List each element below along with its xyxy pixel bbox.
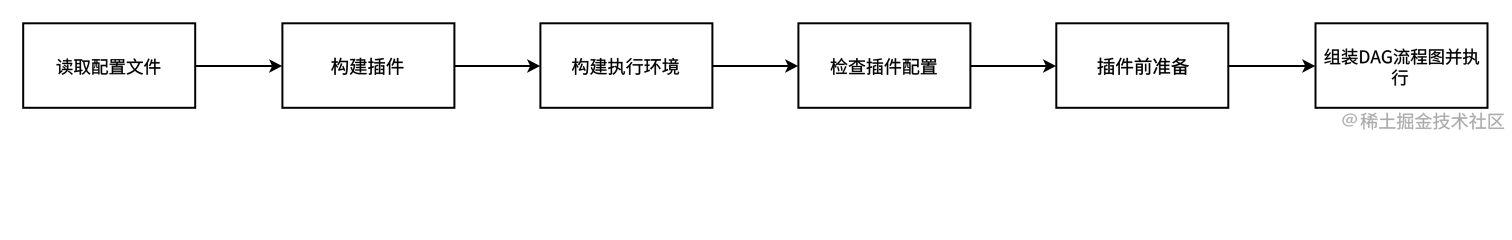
- process box 3: 构建执行环境: [540, 23, 712, 108]
- arrow 3: box 3 to box 4: [713, 65, 789, 67]
- label: 读取配置文件: [57, 58, 161, 74]
- process box 6: 组装DAG流程图并执行: [1316, 23, 1488, 108]
- arrowhead 1: [269, 59, 282, 73]
- process box 4: 检查插件配置: [798, 23, 970, 108]
- arrow 1: box 1 to box 2: [196, 65, 273, 67]
- label line 1: 组装DAG流程图并执: [1324, 49, 1479, 65]
- arrowhead 4: [1043, 59, 1056, 73]
- process box 2: 构建插件: [282, 23, 454, 108]
- label: 插件前准备: [1098, 58, 1189, 75]
- watermark: @稀土掘金技术社区: [1342, 113, 1504, 130]
- arrowhead 2: [527, 59, 540, 73]
- arrow 2: box 2 to box 3: [455, 65, 531, 67]
- label: 构建执行环境: [572, 58, 679, 75]
- process box 5: 插件前准备: [1056, 23, 1228, 108]
- arrow 4: box 4 to box 5: [971, 65, 1046, 67]
- process box 1: 读取配置文件: [23, 23, 195, 108]
- label line 2: 行: [1392, 69, 1408, 85]
- label: 构建插件: [331, 58, 403, 75]
- label: 检查插件配置: [831, 58, 937, 75]
- arrow 5: box 5 to box 6: [1229, 65, 1306, 67]
- arrowhead 3: [785, 59, 798, 73]
- arrowhead 5: [1302, 59, 1315, 73]
